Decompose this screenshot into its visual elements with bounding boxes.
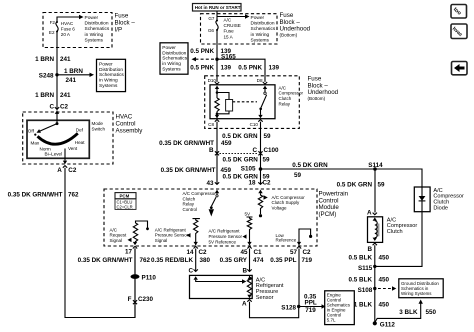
svg-text:Relay: Relay: [279, 102, 291, 107]
svg-text:Schematics: Schematics: [85, 26, 110, 32]
svg-text:S128: S128: [281, 304, 296, 311]
svg-text:5V: 5V: [245, 211, 252, 216]
svg-text:Off: Off: [28, 128, 35, 133]
svg-text:Power: Power: [251, 15, 265, 21]
svg-text:1 BLK: 1 BLK: [354, 301, 373, 308]
svg-text:0.5 PNK: 0.5 PNK: [238, 64, 262, 71]
svg-text:C10: C10: [250, 122, 259, 127]
svg-text:C100: C100: [264, 147, 280, 154]
svg-text:I/P: I/P: [115, 27, 123, 34]
svg-text:Max: Max: [31, 141, 40, 146]
svg-text:C1: C1: [254, 249, 263, 256]
svg-text:Voltage: Voltage: [272, 206, 288, 211]
svg-text:5.7L: 5.7L: [327, 317, 336, 322]
svg-text:Distribution: Distribution: [162, 50, 186, 56]
svg-text:Distribution: Distribution: [251, 21, 275, 27]
svg-text:B: B: [367, 246, 372, 253]
svg-text:Distribution: Distribution: [85, 21, 109, 27]
svg-text:A/C: A/C: [279, 85, 287, 90]
svg-text:C: C: [188, 267, 193, 274]
svg-text:Schematics: Schematics: [251, 26, 276, 32]
svg-text:A: A: [57, 167, 62, 174]
svg-text:45: 45: [240, 249, 248, 256]
svg-text:P110: P110: [142, 275, 157, 282]
svg-text:241: 241: [66, 77, 77, 84]
svg-text:59: 59: [263, 157, 271, 164]
svg-text:762: 762: [68, 192, 79, 199]
svg-text:PPL: PPL: [305, 300, 317, 307]
svg-text:Vent: Vent: [68, 146, 78, 151]
svg-text:F2: F2: [50, 20, 56, 25]
svg-text:S105: S105: [241, 166, 256, 173]
svg-text:G6: G6: [208, 28, 215, 33]
svg-text:in Wiring: in Wiring: [162, 61, 181, 67]
svg-text:Distribution: Distribution: [99, 67, 123, 73]
svg-text:43: 43: [206, 180, 214, 187]
svg-text:17: 17: [125, 248, 133, 255]
svg-text:CRUISE: CRUISE: [224, 23, 241, 28]
svg-text:Reference: Reference: [276, 238, 297, 243]
svg-text:0.35 DK GRN/WHT: 0.35 DK GRN/WHT: [159, 140, 214, 147]
svg-text:0.35 GRY: 0.35 GRY: [220, 257, 248, 264]
svg-text:20 A: 20 A: [61, 32, 71, 37]
svg-text:C2: C2: [60, 104, 69, 111]
svg-text:D8: D8: [257, 78, 263, 83]
svg-text:0.5 BLK: 0.5 BLK: [349, 276, 373, 283]
svg-text:Clutch: Clutch: [387, 229, 403, 235]
svg-text:459: 459: [221, 140, 232, 147]
svg-text:A/C: A/C: [224, 18, 232, 23]
svg-text:B: B: [242, 267, 247, 274]
svg-text:C2: C2: [303, 249, 312, 256]
svg-text:139: 139: [269, 64, 280, 71]
svg-text:18: 18: [248, 180, 256, 187]
svg-text:3 BLK: 3 BLK: [399, 309, 418, 316]
svg-text:Heat: Heat: [75, 140, 85, 145]
svg-text:E2: E2: [49, 30, 55, 35]
svg-text:Sensor: Sensor: [256, 295, 274, 301]
svg-text:Fuse: Fuse: [115, 13, 129, 20]
svg-text:5V Reference: 5V Reference: [209, 240, 237, 245]
svg-text:241: 241: [60, 56, 71, 63]
svg-text:C8: C8: [208, 122, 214, 127]
svg-text:Diode: Diode: [433, 206, 448, 212]
svg-text:0.5 DK GRN: 0.5 DK GRN: [337, 182, 373, 189]
svg-text:G112: G112: [380, 321, 396, 328]
svg-text:Power: Power: [85, 15, 99, 21]
svg-text:Wiring Systems: Wiring Systems: [401, 291, 432, 296]
svg-text:F: F: [128, 296, 132, 303]
svg-text:550: 550: [426, 309, 437, 316]
svg-text:S248: S248: [39, 73, 54, 80]
svg-text:Power: Power: [162, 45, 176, 51]
svg-text:0.35 DK GRN/WHT: 0.35 DK GRN/WHT: [161, 167, 216, 174]
svg-text:0.5 PNK: 0.5 PNK: [190, 48, 214, 55]
svg-text:S115: S115: [358, 265, 373, 272]
svg-text:59: 59: [378, 182, 386, 189]
svg-text:C2: C2: [263, 180, 272, 187]
svg-text:(Bottom): (Bottom): [280, 33, 298, 38]
svg-text:0.5 DK GRN: 0.5 DK GRN: [222, 157, 258, 164]
svg-text:719: 719: [302, 257, 313, 264]
svg-text:in Wiring: in Wiring: [99, 78, 118, 84]
svg-text:0.35 PPL: 0.35 PPL: [270, 257, 296, 264]
svg-text:(Bottom): (Bottom): [308, 96, 326, 101]
svg-text:0.5 BLK: 0.5 BLK: [349, 254, 373, 261]
svg-text:59: 59: [294, 172, 302, 179]
svg-text:0.35 DK GRN/WHT: 0.35 DK GRN/WHT: [8, 192, 63, 199]
svg-text:450: 450: [379, 254, 390, 261]
svg-text:1 BRN: 1 BRN: [35, 92, 54, 99]
svg-text:Signal: Signal: [155, 238, 168, 243]
svg-text:1 BRN: 1 BRN: [35, 56, 54, 63]
svg-text:G7: G7: [208, 16, 215, 21]
svg-text:Mode: Mode: [92, 121, 104, 126]
svg-text:14: 14: [186, 249, 194, 256]
svg-text:Hot in RUN or START: Hot in RUN or START: [195, 5, 241, 10]
svg-text:C230: C230: [138, 296, 154, 303]
svg-text:B: B: [209, 147, 214, 154]
svg-text:Power: Power: [99, 61, 113, 67]
svg-text:Request: Request: [110, 233, 128, 238]
svg-text:Pressure Sensor: Pressure Sensor: [209, 234, 243, 239]
svg-text:C: C: [49, 104, 54, 111]
svg-text:0.35 DK GRN/WHT: 0.35 DK GRN/WHT: [78, 257, 133, 264]
svg-text:Pressure Sensor: Pressure Sensor: [155, 233, 189, 238]
svg-text:C2: C2: [68, 167, 77, 174]
svg-text:0.5 DK GRN: 0.5 DK GRN: [292, 162, 328, 169]
svg-text:241: 241: [60, 92, 71, 99]
svg-text:0.35 RED/BLK: 0.35 RED/BLK: [151, 257, 193, 264]
svg-text:Control: Control: [116, 121, 136, 128]
svg-text:0.5 PNK: 0.5 PNK: [190, 64, 214, 71]
svg-text:450: 450: [379, 301, 390, 308]
svg-text:Systems: Systems: [162, 67, 181, 73]
svg-text:S108: S108: [358, 287, 373, 294]
svg-text:Def: Def: [76, 128, 84, 133]
svg-text:in Wiring: in Wiring: [251, 32, 270, 38]
svg-text:in Wiring: in Wiring: [85, 32, 104, 38]
svg-text:Norm: Norm: [40, 146, 51, 151]
svg-text:C2=CLR: C2=CLR: [117, 205, 133, 210]
svg-text:C2: C2: [199, 249, 208, 256]
svg-text:A: A: [242, 301, 247, 308]
svg-text:59: 59: [264, 133, 272, 140]
svg-text:A/C Refrigerant: A/C Refrigerant: [155, 227, 187, 232]
svg-text:Systems: Systems: [99, 83, 118, 89]
svg-text:Signal: Signal: [110, 238, 123, 243]
svg-text:57: 57: [290, 249, 298, 256]
svg-text:PCM: PCM: [120, 194, 130, 199]
svg-text:450: 450: [379, 276, 390, 283]
svg-text:A/C: A/C: [110, 227, 118, 232]
svg-text:1 BRN: 1 BRN: [64, 68, 83, 75]
svg-text:Clutch Supply: Clutch Supply: [272, 200, 301, 205]
svg-text:Underhood: Underhood: [308, 89, 339, 96]
svg-text:Systems: Systems: [85, 37, 104, 43]
svg-text:474: 474: [253, 257, 264, 264]
svg-text:HVAC: HVAC: [61, 21, 74, 26]
svg-text:Underhood: Underhood: [280, 26, 311, 33]
svg-text:Clutch: Clutch: [279, 96, 292, 101]
svg-text:Assembly: Assembly: [116, 128, 144, 135]
svg-text:15 A: 15 A: [224, 34, 234, 39]
svg-text:139: 139: [221, 64, 232, 71]
svg-text:A/C Compressor: A/C Compressor: [272, 195, 306, 200]
svg-text:Block –: Block –: [115, 20, 136, 27]
svg-text:719: 719: [305, 307, 316, 314]
svg-text:762: 762: [140, 257, 151, 264]
svg-text:Bi–Level: Bi–Level: [45, 152, 63, 157]
svg-text:Switch: Switch: [92, 126, 106, 131]
svg-text:HVAC: HVAC: [116, 114, 133, 121]
svg-text:380: 380: [200, 257, 211, 264]
svg-text:A/C Refrigerant: A/C Refrigerant: [209, 229, 241, 234]
svg-text:Fuse: Fuse: [224, 29, 235, 34]
svg-text:(PCM): (PCM): [319, 211, 337, 218]
svg-text:Fuse 6: Fuse 6: [61, 27, 75, 32]
svg-text:Systems: Systems: [251, 37, 270, 43]
svg-text:0.5 DK GRN: 0.5 DK GRN: [222, 133, 258, 140]
svg-text:A: A: [367, 210, 372, 217]
svg-text:Schematics: Schematics: [162, 56, 187, 62]
svg-text:Control: Control: [183, 207, 198, 212]
svg-text:Schematics: Schematics: [99, 72, 124, 78]
svg-text:Compressor: Compressor: [279, 91, 304, 96]
